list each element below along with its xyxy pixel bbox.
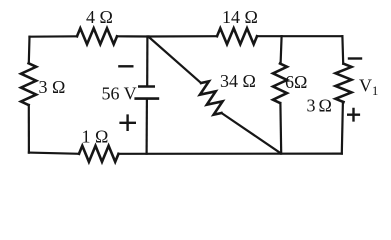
- polarity minus sign of V1: [349, 57, 361, 59]
- wire top: node A to 14-ohm resistor: [149, 35, 217, 37]
- wire bottom: left corner to 1-ohm resistor: [29, 153, 79, 154]
- polarity minus sign of 56 V source: [119, 65, 132, 67]
- svg-text:3Ω: 3Ω: [307, 95, 335, 115]
- wire: battery bottom plate down to bottom wire: [146, 100, 148, 154]
- svg-text:34 Ω: 34 Ω: [220, 71, 256, 91]
- wire: 6-ohm branch bottom stub to node B: [279, 103, 282, 154]
- svg-text:6Ω: 6Ω: [285, 72, 307, 92]
- wire left: top-left corner down to 3-ohm resistor: [28, 37, 31, 64]
- wire: node A diagonal down to 34-ohm resistor: [149, 37, 201, 83]
- voltage source 56 V: top (minus) plate: [138, 85, 155, 88]
- resistor 3 ohm (left, vertical): [21, 63, 36, 105]
- svg-text:14 Ω: 14 Ω: [222, 7, 258, 27]
- wire top: 4-ohm to node A: [117, 35, 149, 37]
- svg-text:4 Ω: 4 Ω: [86, 7, 113, 27]
- wire top: left corner to 4-ohm resistor: [30, 35, 78, 38]
- wire bottom: 1-ohm to bottom-right corner (through battery and diagonal junctions): [119, 153, 342, 155]
- wire top: 14-ohm to top-right corner (through 6-ohm tap): [257, 35, 342, 37]
- wire: node A down to battery top plate: [146, 37, 148, 86]
- wire: 34-ohm diagonal down to bottom node B: [222, 113, 281, 153]
- svg-text:3 Ω: 3 Ω: [39, 77, 66, 97]
- svg-text:1 Ω: 1 Ω: [82, 127, 109, 147]
- polarity plus sign of V1: [348, 109, 359, 120]
- wire: 6-ohm branch top stub: [281, 36, 282, 63]
- resistor 4 ohm (top left, horizontal): [77, 28, 117, 44]
- resistor 34 ohm (diagonal): [200, 81, 223, 114]
- svg-text:56 V: 56 V: [102, 84, 137, 104]
- resistor 14 ohm (top right, horizontal): [217, 28, 257, 44]
- resistor 1 ohm (bottom, horizontal): [79, 146, 119, 162]
- wire right: V1 resistor down to bottom-right corner: [342, 102, 343, 154]
- resistor 6 ohm (vertical): [273, 64, 287, 104]
- polarity plus sign of 56 V source: [121, 116, 135, 130]
- wire left: 3-ohm down to bottom-left corner: [28, 105, 30, 153]
- resistor 3 ohm (right branch, vertical, V1): [336, 64, 352, 102]
- wire right: top-right corner down to 3-ohm V1 resistor: [341, 36, 344, 64]
- voltage source 56 V: bottom (plus) plate: [134, 97, 159, 100]
